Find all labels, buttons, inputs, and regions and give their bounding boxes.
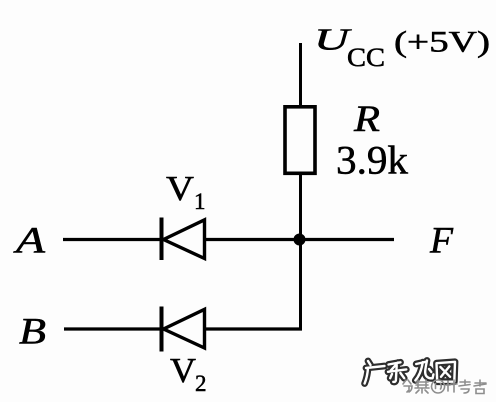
svg-text:F: F	[429, 221, 453, 262]
svg-text:V: V	[166, 169, 194, 208]
wire diode V1 to F	[203, 238, 394, 241]
wire supply vertical	[299, 43, 302, 106]
wire input A row left	[63, 238, 162, 241]
wire input B row left	[64, 327, 162, 330]
diode V2 triangle	[164, 309, 205, 348]
svg-text:(+5V): (+5V)	[394, 26, 490, 59]
node junction dot	[294, 234, 306, 246]
resistor R 3.9k	[285, 107, 315, 174]
wire resistor bottom to corner	[299, 173, 302, 331]
svg-text:3.9k: 3.9k	[336, 138, 408, 183]
svg-text:CC: CC	[347, 43, 385, 72]
watermark faint gray line	[403, 380, 486, 394]
svg-text:1: 1	[194, 189, 206, 214]
svg-text:B: B	[19, 312, 46, 353]
diode V2 cathode bar	[160, 307, 164, 352]
svg-text:R: R	[353, 99, 380, 140]
svg-text:2: 2	[195, 371, 207, 396]
diode V1 cathode bar	[160, 218, 164, 261]
wire diode V2 to corner	[203, 327, 302, 330]
svg-text:V: V	[170, 351, 196, 390]
watermark guangdong long wang	[365, 361, 455, 384]
diode V1 triangle	[164, 220, 205, 259]
svg-text:A: A	[12, 221, 45, 262]
